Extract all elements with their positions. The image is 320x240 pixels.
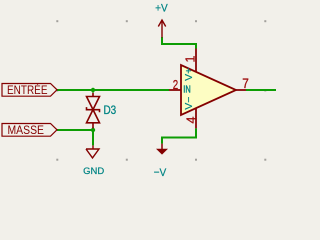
pin 2 (IN) <box>169 89 181 91</box>
svg-text:4: 4 <box>184 116 198 123</box>
crossbar with ticks <box>87 107 100 112</box>
grid dots <box>56 20 266 161</box>
svg-text:V−: V− <box>183 97 195 110</box>
global label MASSE <box>2 124 57 137</box>
top triangle <box>87 97 100 110</box>
power symbol +V <box>158 20 165 38</box>
svg-text:IN: IN <box>183 84 190 96</box>
diode D3 (bidirectional TVS) <box>87 93 100 129</box>
wire pin4 to -V <box>162 128 196 143</box>
wire junction to GND <box>92 130 94 145</box>
junction node B (masse/diode/gnd) <box>91 128 95 132</box>
pin 1 (V+) <box>195 49 197 72</box>
wire ENTREE to pin2 <box>57 89 169 91</box>
wire output <box>246 89 276 91</box>
ground symbol <box>86 145 99 158</box>
svg-text:D3: D3 <box>104 103 117 117</box>
wire +V to pin1 <box>162 37 196 49</box>
pin 4 (V-) <box>195 108 197 128</box>
svg-text:V+: V+ <box>183 68 195 81</box>
bottom triangle <box>87 110 100 123</box>
svg-text:−V: −V <box>154 167 167 179</box>
wire MASSE to junction <box>57 129 93 131</box>
power symbol -V <box>156 144 168 155</box>
wire diode top stub <box>92 89 94 93</box>
svg-text:ENTRÉE: ENTRÉE <box>7 84 48 97</box>
wire diode bottom stub <box>92 128 94 132</box>
pin bottom <box>92 123 94 129</box>
pin top <box>92 93 94 97</box>
svg-text:+V: +V <box>155 3 168 15</box>
svg-text:MASSE: MASSE <box>8 125 45 137</box>
svg-text:GND: GND <box>83 166 105 176</box>
junction node A (entree/diode) <box>91 88 95 92</box>
svg-text:7: 7 <box>242 76 249 91</box>
svg-text:2: 2 <box>173 78 178 92</box>
svg-text:1: 1 <box>184 56 198 63</box>
pin 7 (output) <box>236 89 246 91</box>
op-amp U1 body <box>181 65 236 115</box>
global label ENTREE <box>2 84 57 97</box>
